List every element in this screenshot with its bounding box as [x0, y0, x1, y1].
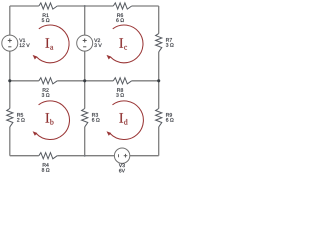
- wire: [57, 155, 114, 157]
- resistor R2 3Ω: [39, 78, 57, 97]
- wire: [10, 5, 39, 7]
- node: right-middle junction: [157, 79, 160, 82]
- mesh current Ic: [107, 25, 144, 63]
- resistor R4 8Ω: [39, 153, 57, 172]
- wire: [158, 52, 160, 109]
- voltage source V3 6V: [114, 148, 129, 172]
- wire: [132, 80, 159, 82]
- voltage source V1 12V: [2, 35, 30, 51]
- resistor R7 3Ω: [156, 34, 174, 52]
- resistor R6 6Ω: [113, 3, 131, 22]
- resistor R8 3Ω: [113, 78, 131, 97]
- resistor R3 6Ω: [82, 109, 100, 127]
- resistor R9 6Ω: [156, 109, 174, 127]
- mesh current Ia: [33, 25, 70, 63]
- voltage source V2 3V: [77, 35, 102, 51]
- wire: [84, 6, 86, 35]
- wire: [158, 6, 160, 34]
- node: left-middle junction: [8, 79, 11, 82]
- wire: [132, 5, 159, 7]
- wire: [9, 6, 11, 35]
- node: center junction: [83, 79, 86, 82]
- mesh current Id: [107, 101, 144, 140]
- resistor R5 2Ω: [7, 109, 25, 127]
- mesh current Ib: [33, 101, 70, 140]
- wire: [9, 127, 11, 156]
- node: top-middle junction: [84, 5, 86, 7]
- wire: [10, 155, 39, 157]
- wire: [57, 80, 113, 82]
- resistor R1 5Ω: [39, 3, 57, 22]
- wire: [84, 127, 86, 156]
- wire: [57, 5, 113, 7]
- wire: [130, 155, 159, 157]
- wire: [9, 51, 11, 108]
- node: bottom-middle junction: [84, 155, 86, 157]
- wire: [10, 80, 39, 82]
- wire: [158, 127, 160, 156]
- wire: [84, 51, 86, 108]
